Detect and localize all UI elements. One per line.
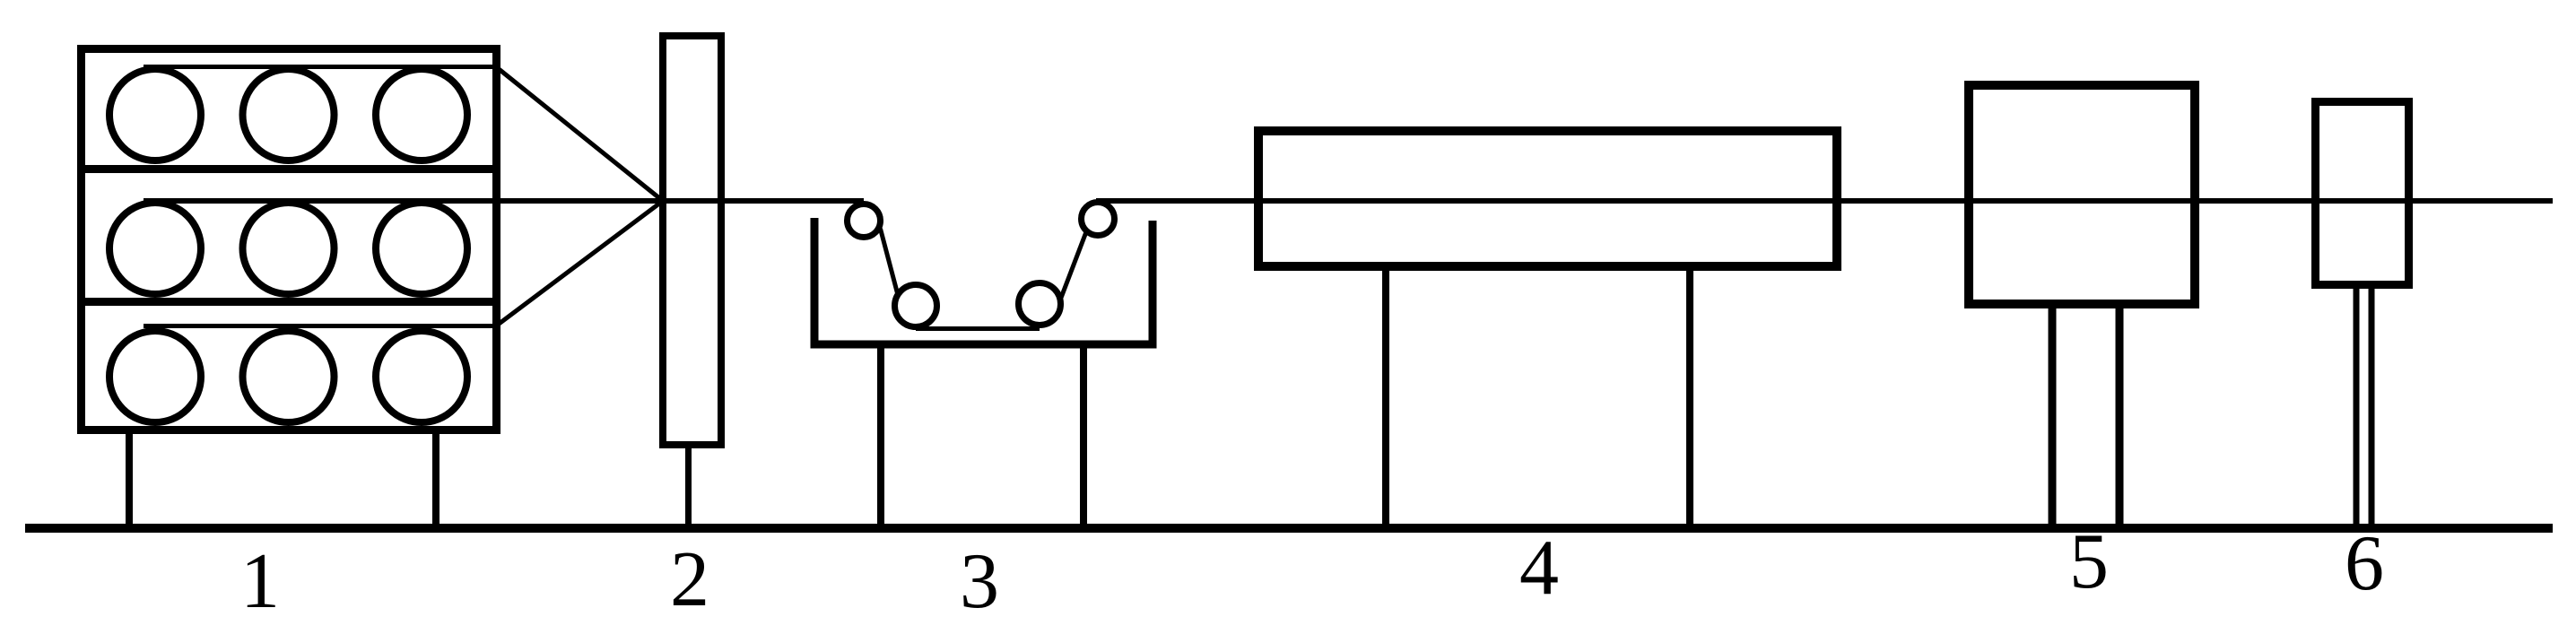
pulley top-right: [1082, 203, 1115, 236]
wire slant bottom: [496, 201, 663, 326]
unit 6 box: [2316, 102, 2409, 285]
bath leg left: [877, 348, 884, 528]
unit 5 leg left: [2049, 308, 2057, 528]
unit 6 leg right: [2369, 289, 2375, 528]
wire slant top: [496, 67, 663, 202]
spool row1 b: [243, 69, 335, 161]
pulley top-left: [848, 204, 881, 238]
main wire left segment: [144, 198, 864, 204]
spool row2 b: [243, 203, 335, 294]
oven leg left: [1382, 271, 1389, 528]
spool row3 c: [376, 331, 467, 422]
pay-off stand 1 outer frame: [82, 49, 497, 430]
die plate 2: [663, 36, 721, 445]
svg-text:2: 2: [670, 536, 709, 623]
svg-text:1: 1: [240, 538, 280, 625]
spool row1 c: [376, 69, 467, 161]
pulley bottom-left: [895, 285, 937, 327]
wire dip right: [1061, 230, 1087, 298]
stand leg left: [126, 434, 133, 528]
unit 5 leg right: [2116, 308, 2124, 528]
oven leg right: [1686, 271, 1693, 528]
spool row3 a: [109, 331, 201, 422]
wire row3 tangent: [144, 324, 496, 328]
oven 4: [1258, 131, 1837, 266]
bath leg right: [1080, 348, 1087, 528]
main wire right segment: [1096, 198, 2553, 204]
wire dip left: [881, 229, 898, 293]
ground line: [25, 524, 2553, 533]
unit 5 box: [1969, 85, 2195, 304]
pulley bottom-right: [1019, 283, 1061, 326]
shelf divider upper: [77, 165, 500, 173]
svg-text:3: 3: [960, 538, 999, 625]
spool row1 a: [109, 69, 201, 161]
spool row2 a: [109, 203, 201, 294]
bath 3 left wall: [811, 218, 819, 344]
wire row1 tangent: [144, 65, 496, 69]
svg-text:4: 4: [1519, 525, 1559, 612]
svg-text:6: 6: [2345, 520, 2384, 607]
spool row2 c: [376, 203, 467, 294]
unit 6 leg left: [2354, 289, 2360, 528]
spool row3 b: [243, 331, 335, 422]
shelf divider lower: [77, 298, 500, 306]
bath bottom: [811, 341, 1157, 349]
wire bath bottom: [916, 326, 1040, 331]
svg-text:5: 5: [2069, 518, 2109, 605]
die leg: [685, 448, 692, 528]
stand leg right: [432, 434, 439, 528]
bath right wall: [1149, 221, 1157, 344]
